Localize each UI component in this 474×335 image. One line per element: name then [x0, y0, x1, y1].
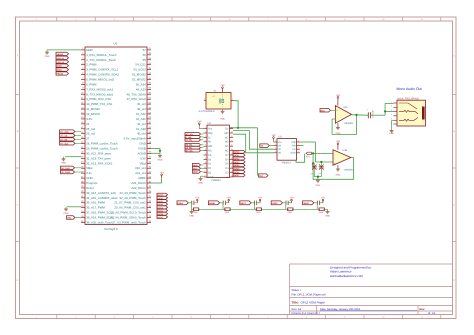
svg-text:IC: IC: [208, 136, 211, 139]
capacitors C5 C6 at U4B: [312, 165, 317, 167]
svg-text:GND: GND: [45, 55, 50, 58]
junction U1 right gnd: [159, 150, 161, 152]
svg-text:54_CS1: 54_CS1: [135, 63, 146, 67]
J1 internal contacts: [399, 103, 417, 109]
svg-text:NC: NC: [225, 141, 229, 144]
svg-text:AREF: AREF: [138, 176, 146, 180]
wire U2 MO to U3: [233, 134, 274, 153]
wire GND mid left: [65, 156, 81, 158]
svg-text:VBat: VBat: [86, 166, 92, 170]
ground flag caps: [317, 177, 319, 178]
+5V flag U4A: [337, 98, 339, 106]
wire U2 clock down to label: [238, 127, 257, 129]
svg-text:+5V: +5V: [258, 197, 263, 200]
U1 right pins with numbers and names: [147, 49, 151, 51]
svg-text:5.5V_max250mA: 5.5V_max250mA: [124, 137, 146, 141]
oscillator X1 body: [206, 93, 231, 110]
svg-text:7_RX3_MOSI0_sck1: 7_RX3_MOSI0_sck1: [86, 87, 113, 91]
global label stack mid left: [75, 131, 81, 133]
svg-text:SHUF: SHUF: [303, 202, 309, 205]
svg-text:+5V: +5V: [197, 120, 202, 123]
svg-text:GND: GND: [335, 174, 340, 177]
+5V flag U2 top left: [198, 124, 200, 126]
svg-text:1: 1: [204, 98, 205, 101]
U4A feedback loop: [332, 115, 356, 135]
svg-text:CLK: CLK: [259, 175, 264, 178]
svg-text:4: 4: [391, 113, 392, 116]
svg-text:7: 7: [205, 152, 206, 155]
svg-text:39_A20_unt0_Touch: 39_A20_unt0_Touch: [86, 220, 113, 224]
svg-text:9_PWM_RX2_CS0: 9_PWM_RX2_CS0: [86, 97, 111, 101]
svg-text:42_unt: 42_unt: [137, 122, 146, 126]
svg-text:PREV: PREV: [178, 202, 184, 205]
svg-text:29_PWM_can0tx_Touch: 29_PWM_can0tx_Touch: [86, 147, 118, 151]
svg-text:CS: CS: [208, 154, 212, 157]
svg-text:5_PWM_MISO1_txd1: 5_PWM_MISO1_txd1: [86, 77, 114, 81]
junction VOL feedback: [312, 152, 314, 154]
svg-text:41_A20: 41_A20: [136, 127, 146, 131]
svg-text:32_A13_RX4_SCK1: 32_A13_RX4_SCK1: [86, 161, 113, 165]
svg-text:3.3v: 3.3v: [86, 171, 92, 175]
svg-text:5: 5: [205, 144, 206, 147]
svg-text:C? 10uF: C? 10uF: [372, 109, 375, 117]
svg-text:GND: GND: [139, 142, 145, 146]
svg-text:U4A: U4A: [343, 106, 348, 109]
svg-text:TFT_CS: TFT_CS: [60, 135, 68, 138]
svg-text:GND: GND: [86, 48, 92, 52]
svg-text:19_A5_PWM_SCL0_Touch: 19_A5_PWM_SCL0_Touch: [111, 211, 147, 215]
svg-text:Teensy3.6: Teensy3.6: [104, 227, 118, 231]
svg-text:LM358N: LM358N: [344, 122, 353, 125]
IC U2 body: [207, 125, 230, 177]
svg-text:IRQ: IRQ: [208, 132, 213, 135]
svg-text:3.579545MHz: 3.579545MHz: [199, 110, 216, 113]
svg-text:7: 7: [298, 143, 299, 146]
svg-text:RAND: RAND: [209, 202, 216, 205]
svg-text:DATA6: DATA6: [234, 171, 240, 174]
svg-text:4: 4: [205, 139, 206, 142]
junction cap feedback leg: [312, 162, 314, 164]
svg-text:16: 16: [231, 161, 233, 164]
svg-text:56: 56: [143, 53, 147, 57]
svg-text:2: 2: [391, 105, 392, 108]
svg-text:21: 21: [231, 139, 233, 142]
svg-text:23_A9_PWM_Touch: 23_A9_PWM_Touch: [119, 191, 146, 195]
svg-text:VUSB: VUSB: [138, 147, 146, 151]
ground flag U4A: [337, 123, 339, 127]
global label VOL left: [67, 216, 76, 219]
svg-text:49_A23: 49_A23: [136, 87, 146, 91]
svg-text:Reset: Reset: [86, 186, 94, 190]
svg-text:NC: NC: [225, 136, 229, 139]
svg-text:45_unt: 45_unt: [137, 107, 146, 111]
frame reference ticks and labels: [56, 17, 58, 21]
svg-text:VOL: VOL: [67, 217, 72, 220]
global label stack U2 right DATA: [233, 150, 245, 153]
svg-text:2: 2: [275, 143, 276, 146]
svg-text:8_TX3_MISO0_sda1: 8_TX3_MISO0_sda1: [86, 92, 113, 96]
svg-text:28_PWM_can0rx_Touch: 28_PWM_can0rx_Touch: [86, 142, 118, 146]
junction clock wire: [237, 127, 239, 129]
svg-text:3: 3: [391, 109, 392, 112]
svg-text:12: 12: [204, 174, 206, 177]
X1 internal crystal: [218, 99, 220, 104]
X1 right pin: [231, 100, 234, 102]
capacitor C7 output: [367, 112, 369, 118]
svg-text:+5V: +5V: [289, 197, 294, 200]
svg-text:22: 22: [231, 135, 233, 138]
svg-text:DATA0: DATA0: [234, 151, 240, 154]
svg-text:DATA2: DATA2: [234, 157, 240, 160]
svg-text:Program: Program: [86, 181, 98, 185]
svg-text:52_MOSI2: 52_MOSI2: [132, 73, 146, 77]
svg-text:U4B: U4B: [343, 149, 348, 152]
svg-text:12_MISO0: 12_MISO0: [86, 112, 100, 116]
svg-text:DATA3: DATA3: [234, 161, 240, 164]
svg-text:MIDI0: MIDI0: [57, 65, 62, 68]
wire U3 gnd loop: [296, 154, 305, 163]
svg-text:6: 6: [205, 148, 206, 151]
junction U4A output: [355, 114, 357, 116]
wire J1 gnd: [392, 119, 394, 121]
svg-text:55: 55: [143, 58, 147, 62]
svg-text:2: 2: [205, 130, 206, 133]
svg-text:LD: LD: [278, 148, 281, 151]
svg-text:A?: A?: [213, 95, 215, 98]
global label stack DATA0-DATA7: [157, 193, 168, 196]
svg-text:23: 23: [231, 130, 233, 133]
svg-text:CK: CK: [292, 148, 296, 151]
svg-text:25_rxd: 25_rxd: [86, 127, 95, 131]
wire X1 clock to U2: [230, 101, 239, 128]
svg-text:4: 4: [275, 150, 276, 153]
svg-text:11_MOSI0: 11_MOSI0: [86, 107, 100, 111]
ground flag U4B: [337, 165, 339, 168]
svg-text:-: -: [336, 118, 337, 122]
X1 left pin: [204, 100, 206, 102]
svg-text:GND: GND: [64, 212, 69, 215]
svg-text:33_A14_CAN0TX_scl0: 33_A14_CAN0TX_scl0: [86, 191, 116, 195]
op-amp U4B body: [333, 150, 351, 166]
svg-text:MIDI1: MIDI1: [57, 69, 62, 72]
ground flag U2 bottom: [201, 175, 204, 177]
svg-text:-: -: [334, 152, 335, 156]
svg-text:USB_D2: USB_D2: [57, 61, 64, 64]
svg-text:53_SCK2: 53_SCK2: [133, 68, 146, 72]
svg-text:19: 19: [231, 148, 233, 151]
svg-text:9: 9: [205, 161, 206, 164]
junction jack feed: [384, 110, 386, 112]
svg-text:47_RX6_SCL0: 47_RX6_SCL0: [127, 97, 147, 101]
svg-text:NEXT: NEXT: [240, 202, 246, 205]
svg-text:1_RX1_MODUL_Touch: 1_RX1_MODUL_Touch: [86, 53, 117, 57]
svg-text:17_A3_PWM_unt0_Touch: 17_A3_PWM_unt0_Touch: [112, 220, 146, 224]
svg-text:10_PWM_TX2_CS0: 10_PWM_TX2_CS0: [86, 102, 112, 106]
svg-text:File: OPL2_VGM_Player.sch: File: OPL2_VGM_Player.sch: [292, 294, 327, 297]
svg-text:LM358N: LM358N: [344, 169, 353, 172]
svg-text:51_MISO2: 51_MISO2: [132, 77, 146, 81]
wire U4A output: [352, 114, 369, 116]
svg-text:2: 2: [232, 98, 233, 101]
svg-text:A11_unt: A11_unt: [135, 171, 146, 175]
svg-text:RD: RD: [208, 150, 212, 153]
svg-text:35_A16_PWM: 35_A16_PWM: [86, 201, 105, 205]
svg-text:WR: WR: [208, 145, 212, 148]
svg-text:3.3V: 3.3V: [86, 117, 92, 121]
svg-text:31_A13_TX4_pwm: 31_A13_TX4_pwm: [86, 156, 111, 160]
svg-text:15: 15: [231, 166, 233, 169]
+5V flag U3: [273, 138, 275, 140]
svg-text:D: D: [17, 279, 19, 282]
junction caps rail: [317, 176, 319, 178]
svg-text:1_TX1_MODUL_Touch: 1_TX1_MODUL_Touch: [86, 58, 116, 62]
svg-text:6: 6: [298, 147, 299, 150]
wire U2 SY to U3: [233, 131, 274, 150]
svg-text:GND: GND: [389, 132, 394, 135]
svg-text:1: 1: [205, 126, 206, 129]
svg-text:GND: GND: [198, 181, 203, 184]
global label DAC to U4A: [320, 109, 331, 113]
svg-text:+5V: +5V: [159, 171, 164, 174]
svg-text:+5V: +5V: [195, 197, 200, 200]
U1 left pins with numbers and names: [81, 49, 85, 51]
global label triple U2 lower left: [193, 163, 201, 166]
svg-text:27: 27: [86, 137, 90, 141]
svg-text:Mono Audio Out: Mono Audio Out: [397, 87, 422, 91]
svg-text:AGND: AGND: [137, 151, 145, 155]
+5V flag right of U1: [161, 176, 163, 178]
svg-text:TFT_BL0: TFT_BL0: [60, 142, 68, 145]
wire vertical to plus input: [315, 142, 317, 162]
wire GND to U1 pin1: [47, 49, 81, 51]
svg-text:5: 5: [298, 150, 299, 153]
svg-text:VBUS0: VBUS0: [57, 53, 63, 56]
svg-text:14: 14: [231, 170, 233, 173]
svg-text:Id: 1/1: Id: 1/1: [428, 312, 436, 315]
svg-text:+5V: +5V: [336, 94, 341, 97]
svg-text:U1: U1: [114, 42, 118, 46]
svg-text:24: 24: [231, 126, 233, 129]
svg-text:GND: GND: [86, 176, 92, 180]
svg-text:50_A24: 50_A24: [136, 82, 146, 86]
svg-text:1: 1: [275, 139, 276, 142]
wire U3 out top: [300, 141, 316, 143]
svg-text:Aidan Lawrence: Aidan Lawrence: [330, 270, 352, 274]
svg-text:3_PWM_CAN0TX_SCL2: 3_PWM_CAN0TX_SCL2: [86, 68, 119, 72]
wire chain right end: [325, 208, 328, 210]
svg-text:26_rxd: 26_rxd: [86, 132, 95, 136]
global label SD_SEL: [260, 144, 270, 148]
svg-text:www.aidanlawrence.com: www.aidanlawrence.com: [330, 274, 364, 278]
svg-text:21_A7_PWM_CS0_unt1: 21_A7_PWM_CS0_unt1: [114, 201, 146, 205]
ground flag mid left: [63, 157, 65, 159]
U3 pins: [274, 141, 278, 143]
svg-text:48_TX6_SDA0: 48_TX6_SDA0: [127, 92, 147, 96]
svg-text:34_A15_CAN0RX_sda0: 34_A15_CAN0RX_sda0: [86, 196, 118, 200]
svg-text:Sheet: /: Sheet: /: [292, 289, 302, 292]
svg-text:3: 3: [275, 147, 276, 150]
svg-text:SY: SY: [225, 128, 229, 131]
svg-text:NC: NC: [225, 145, 229, 148]
global label stack upper left: [56, 52, 69, 55]
svg-text:1: 1: [391, 100, 392, 103]
svg-text:22_A8_PWM_Touch: 22_A8_PWM_Touch: [119, 196, 146, 200]
svg-text:Title:: Title:: [292, 300, 299, 304]
svg-text:18: 18: [231, 152, 233, 155]
svg-text:GND: GND: [290, 152, 295, 155]
svg-text:4_PWM_CAN0RX_SDA2: 4_PWM_CAN0RX_SDA2: [86, 73, 119, 77]
svg-text:RB: RB: [292, 144, 296, 147]
svg-text:NC: NC: [225, 150, 229, 153]
connector J1 body: [397, 100, 426, 126]
svg-text:24: 24: [86, 122, 90, 126]
svg-text:DATA7: DATA7: [234, 174, 240, 177]
junction cap plus input: [320, 161, 322, 163]
svg-text:Rev:: Rev:: [420, 308, 426, 311]
svg-text:Size: A4: Size: A4: [292, 308, 302, 311]
svg-text:43_A21: 43_A21: [136, 117, 146, 121]
svg-text:20_A6_PWM_CS0_unt1: 20_A6_PWM_CS0_unt1: [114, 206, 146, 210]
svg-text:C: C: [17, 204, 19, 207]
svg-text:KiCad E.D.A. kicad 4.0.7: KiCad E.D.A. kicad 4.0.7: [292, 312, 321, 315]
svg-text:MO: MO: [224, 132, 228, 135]
global label clock: [259, 174, 269, 177]
svg-text:YB: YB: [278, 144, 282, 147]
svg-text:GND: GND: [325, 215, 330, 218]
svg-text:TFT_RS: TFT_RS: [60, 138, 68, 141]
svg-text:YM3812: YM3812: [211, 179, 221, 182]
svg-text:6_PWM: 6_PWM: [86, 82, 97, 86]
svg-text:Date: Saturday, January 20th 2: Date: Saturday, January 20th 2018: [320, 308, 361, 311]
svg-text:17: 17: [231, 157, 233, 160]
ground flag below X1: [222, 109, 224, 111]
svg-text:C?: C?: [319, 173, 321, 176]
svg-text:C?: C?: [311, 173, 313, 176]
svg-text:20: 20: [231, 144, 233, 147]
svg-text:SD_CLK0: SD_CLK0: [61, 167, 70, 170]
svg-text:GND: GND: [220, 117, 225, 120]
svg-text:10: 10: [204, 166, 206, 169]
svg-text:DATA7: DATA7: [158, 216, 163, 219]
svg-text:LOOP: LOOP: [272, 202, 279, 205]
svg-text:DAC: DAC: [321, 109, 326, 112]
svg-text:SD: SD: [278, 152, 282, 155]
ground flag lower left: [65, 207, 67, 209]
svg-text:C: C: [453, 204, 455, 207]
svg-text:13: 13: [231, 174, 233, 177]
svg-text:D: D: [453, 279, 455, 282]
svg-text:+5V: +5V: [336, 140, 341, 143]
svg-text:+5V: +5V: [321, 197, 326, 200]
svg-text:A21_DAC0: A21_DAC0: [131, 181, 146, 185]
IC U3 body: [277, 139, 297, 161]
svg-text:DATA1: DATA1: [234, 154, 240, 157]
svg-text:MID2: MID2: [193, 171, 198, 174]
svg-text:+5V: +5V: [220, 84, 225, 87]
svg-text:11: 11: [204, 170, 206, 173]
ground flag chain left: [191, 209, 193, 211]
svg-text:MO_SEL: MO_SEL: [186, 150, 194, 153]
svg-text:PROG0: PROG0: [57, 73, 64, 76]
svg-text:3: 3: [205, 135, 206, 138]
svg-text:INR: INR: [292, 141, 296, 144]
op-amp U4A body: [335, 106, 351, 124]
svg-text:VBat: VBat: [140, 161, 146, 165]
wire U1 right GND junction: [151, 147, 160, 149]
svg-text:U2: U2: [208, 122, 212, 125]
ground flag chain right: [327, 209, 329, 211]
+5V flag above X1: [222, 88, 224, 92]
wire VOL to minus input: [311, 152, 333, 154]
svg-text:DATA5: DATA5: [234, 167, 240, 170]
svg-text:30_A12_RX4_pwm: 30_A12_RX4_pwm: [86, 151, 111, 155]
svg-text:44_A22: 44_A22: [136, 112, 146, 116]
svg-text:8: 8: [298, 139, 299, 142]
svg-text:A0_SEL: A0_SEL: [186, 139, 194, 142]
global label pair lower left: [75, 167, 82, 169]
ground flag J1: [391, 128, 393, 130]
svg-text:TFT_DC0: TFT_DC0: [60, 131, 68, 134]
svg-text:18_A4_PWM_SDA0_Touch: 18_A4_PWM_SDA0_Touch: [110, 216, 146, 220]
ground flag left top: [46, 50, 48, 52]
svg-text:OPL2 VGM Player: OPL2 VGM Player: [301, 300, 326, 304]
svg-text:GND: GND: [158, 158, 163, 161]
ground flag U1 right: [159, 153, 161, 155]
svg-text:VOL: VOL: [306, 156, 311, 159]
svg-text:YM3014: YM3014: [282, 161, 292, 164]
J1 pins: [393, 102, 397, 104]
svg-text:GND: GND: [315, 184, 320, 187]
svg-text:2_PWM: 2_PWM: [86, 63, 97, 67]
svg-text:GND: GND: [189, 215, 194, 218]
button chain PREV RAND NEXT LOOP SHUF: [177, 201, 188, 205]
op IC U1 body: [85, 47, 147, 225]
svg-text:36_A17_PWM: 36_A17_PWM: [86, 206, 105, 210]
svg-text:A10_unt: A10_unt: [135, 166, 146, 170]
wire GND lower left: [67, 206, 81, 208]
svg-text:+5V: +5V: [271, 134, 276, 137]
svg-text:GND: GND: [61, 162, 66, 165]
svg-text:GND: GND: [208, 176, 214, 179]
svg-text:57: 57: [143, 48, 147, 52]
+5V flag U4B: [337, 144, 339, 150]
global label stack U2 left: [185, 133, 201, 136]
svg-text:A22_DAC1: A22_DAC1: [131, 186, 146, 190]
svg-text:SD_CMD0: SD_CMD0: [61, 171, 70, 174]
wire U3 out second: [300, 145, 304, 147]
svg-text:3.3V: 3.3V: [140, 156, 146, 160]
title block lines: [289, 264, 291, 315]
svg-text:40_unt: 40_unt: [137, 132, 146, 136]
svg-text:46_unt: 46_unt: [137, 102, 146, 106]
U2 pins: [204, 128, 208, 130]
U4B feedback loop: [313, 153, 353, 179]
svg-text:+5V: +5V: [227, 197, 232, 200]
svg-text:DATA4: DATA4: [234, 164, 240, 167]
wire cap to jack: [371, 114, 386, 116]
svg-text:8: 8: [205, 157, 206, 160]
svg-text:USB_D1: USB_D1: [57, 57, 64, 60]
wire jack riser: [384, 103, 386, 115]
